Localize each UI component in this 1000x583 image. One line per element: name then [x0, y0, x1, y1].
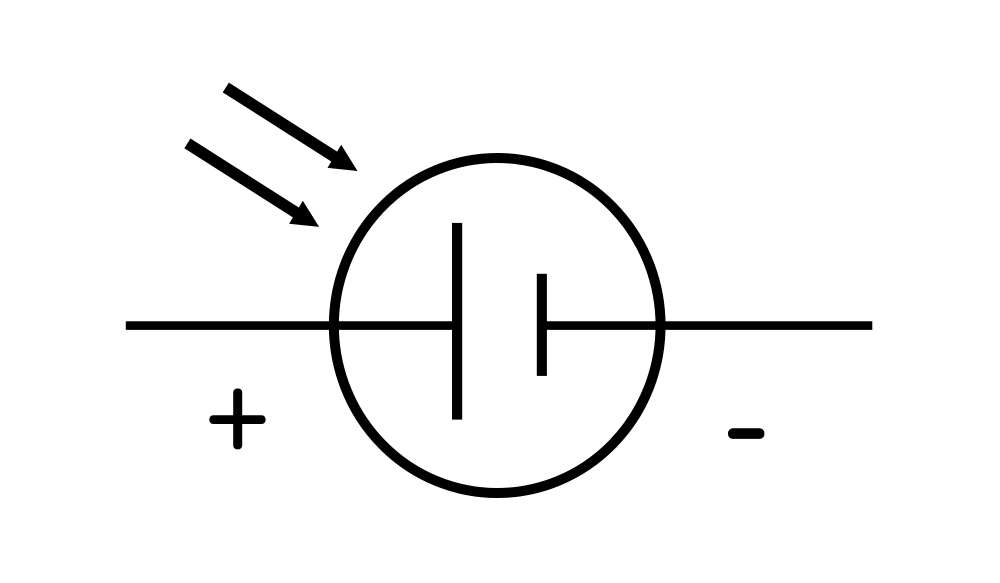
- light arrow 1 head: [328, 145, 358, 171]
- light arrow 2 head: [289, 201, 319, 227]
- wire right terminal: [542, 321, 872, 330]
- minus terminal label: [728, 428, 764, 439]
- light arrow 1 shaft: [226, 88, 337, 159]
- light arrow 2 shaft: [187, 143, 298, 214]
- plus terminal label: [209, 389, 265, 450]
- wire left terminal: [126, 321, 457, 330]
- battery short plate (negative electrode): [537, 274, 547, 376]
- photovoltaic cell BT1 circle: [334, 158, 661, 493]
- battery long plate (positive electrode): [452, 223, 462, 420]
